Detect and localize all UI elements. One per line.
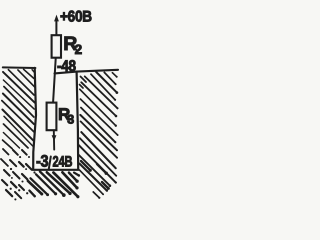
resistor R2: [52, 35, 61, 58]
sparse dash-dot hatching bottom-left: [1, 149, 36, 200]
svg-text:-3: -3: [36, 152, 48, 170]
right ground block left wall / channel right wall: [77, 72, 79, 170]
wire R2 to R3: [53, 59, 56, 103]
svg-text:24В: 24В: [53, 153, 73, 170]
right ground block top edge: [77, 70, 118, 72]
label R3: [58, 105, 74, 127]
band hatching below cavity: [28, 172, 80, 199]
node tick -4,8V: [55, 72, 78, 74]
svg-text:3: 3: [67, 113, 74, 127]
cavity bottom line: [32, 169, 79, 171]
svg-text:+60В: +60В: [60, 8, 92, 25]
left ground block hatching: [2, 69, 35, 148]
label R2: [63, 33, 82, 57]
label -3,24В: [36, 152, 73, 170]
svg-text:-48: -48: [57, 58, 76, 75]
svg-text:2: 2: [75, 42, 83, 57]
resistor R3: [47, 103, 57, 131]
wire below R3 with current arrow: [52, 131, 57, 150]
right ground block hatching: [78, 71, 119, 199]
supply terminal arrow (+60V): [54, 15, 59, 35]
left ground block right wall / channel left wall: [33, 68, 36, 170]
left ground block top edge: [3, 66, 36, 69]
